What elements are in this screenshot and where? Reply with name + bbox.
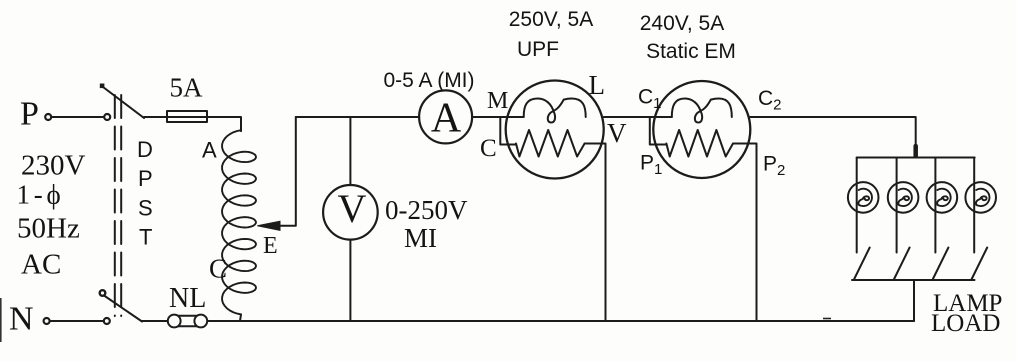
switch DPST pole-2 pivot xyxy=(100,290,106,296)
DPST mechanical link (dashed double line) xyxy=(114,95,116,316)
svg-text:230V: 230V xyxy=(21,150,86,182)
bottom rail wire xyxy=(142,320,914,322)
energy meter current coil xyxy=(672,99,732,123)
svg-text:S: S xyxy=(138,196,153,221)
svg-text:1 - ϕ: 1 - ϕ xyxy=(17,180,61,210)
svg-text:N: N xyxy=(9,301,34,338)
switch DPST pole-1 blade xyxy=(103,87,144,118)
energy meter C1-P1 link xyxy=(650,117,667,145)
svg-text:0-250V: 0-250V xyxy=(385,195,468,225)
lamp L1 xyxy=(848,182,879,213)
svg-text:C: C xyxy=(209,254,227,284)
svg-text:D: D xyxy=(137,137,153,162)
lamp branch 4 wire xyxy=(973,158,975,253)
lamp branch 2 wire xyxy=(896,158,898,253)
wattmeter circle xyxy=(506,81,604,179)
wattmeter pressure coil xyxy=(516,130,585,157)
svg-text:NL: NL xyxy=(169,283,206,314)
wire: wiper to top rail riser xyxy=(278,117,296,226)
lamp L2 xyxy=(888,182,919,213)
fuse F1 body xyxy=(167,111,207,122)
svg-text:AC: AC xyxy=(21,249,61,281)
svg-text:C: C xyxy=(480,135,497,162)
autotransformer winding xyxy=(240,129,242,132)
wire P lead xyxy=(52,116,104,118)
wire: energy meter to lamp load feed xyxy=(750,117,915,158)
junction tick at lamp bus feed xyxy=(913,146,918,156)
lamp load top bus xyxy=(857,157,975,159)
ammeter A circle xyxy=(419,90,472,143)
lamp L3 xyxy=(927,182,958,213)
wire: voltmeter tap lower xyxy=(349,240,351,321)
svg-text:MI: MI xyxy=(404,223,437,253)
wiper arrow E xyxy=(257,221,280,230)
svg-text:0-5 A (MI): 0-5 A (MI) xyxy=(383,69,474,92)
terminal P circle xyxy=(45,114,51,120)
lamp load bottom bus xyxy=(852,279,975,281)
lamp L4 xyxy=(965,182,996,213)
svg-text:A: A xyxy=(431,96,462,142)
wire: top rail from switch to autotransformer xyxy=(144,117,241,131)
energy meter potential coil xyxy=(666,130,733,157)
svg-text:E: E xyxy=(263,233,278,259)
node: neutral switch fixed contact xyxy=(104,318,110,324)
wattmeter M-C link xyxy=(500,117,516,145)
lamp switch 2 blade xyxy=(894,248,910,280)
switch DPST pole-1 pivot xyxy=(100,84,105,89)
wire: riser to ammeter xyxy=(296,116,419,118)
fuse NL body xyxy=(174,316,202,327)
wire: lamp bus return drop xyxy=(913,280,915,321)
svg-text:UPF: UPF xyxy=(517,38,559,61)
wire N lead xyxy=(50,320,104,322)
svg-text:L: L xyxy=(589,70,606,100)
svg-text:50Hz: 50Hz xyxy=(17,213,80,245)
node: phase switch fixed contact xyxy=(104,114,110,120)
lamp switch 1 blade xyxy=(854,248,870,280)
wire: voltmeter tap upper xyxy=(349,117,351,185)
voltmeter V circle xyxy=(323,185,378,240)
terminal N circle xyxy=(44,318,50,324)
svg-text:P: P xyxy=(138,166,153,191)
switch DPST pole-2 blade xyxy=(104,296,142,322)
wire: ammeter to wattmeter xyxy=(472,116,524,118)
wire: wattmeter to energy meter xyxy=(604,116,672,118)
svg-text:V: V xyxy=(338,186,367,231)
svg-text:LOAD: LOAD xyxy=(931,310,1000,337)
lamp switch 3 blade xyxy=(933,248,949,280)
lamp branch 1 wire xyxy=(856,158,858,253)
lamp branch 3 wire xyxy=(934,158,936,253)
svg-text:P: P xyxy=(20,96,39,133)
wattmeter V stub and drop wire xyxy=(585,144,606,322)
wattmeter current coil xyxy=(524,99,586,123)
svg-text:V: V xyxy=(607,118,627,148)
svg-text:Static EM: Static EM xyxy=(646,40,736,63)
svg-text:M: M xyxy=(487,88,508,114)
svg-text:A: A xyxy=(202,138,217,163)
scan artifact: left edge streak xyxy=(0,298,2,342)
svg-text:250V, 5A: 250V, 5A xyxy=(509,8,593,31)
svg-text:240V, 5A: 240V, 5A xyxy=(640,12,724,35)
lamp switch 4 blade xyxy=(972,248,988,280)
scan artifact: small dash on bottom rail xyxy=(823,318,831,320)
energy meter circle xyxy=(653,81,750,178)
svg-text:5A: 5A xyxy=(170,73,204,103)
energy meter P2 stub and drop wire xyxy=(733,144,757,322)
svg-text:T: T xyxy=(139,225,152,250)
